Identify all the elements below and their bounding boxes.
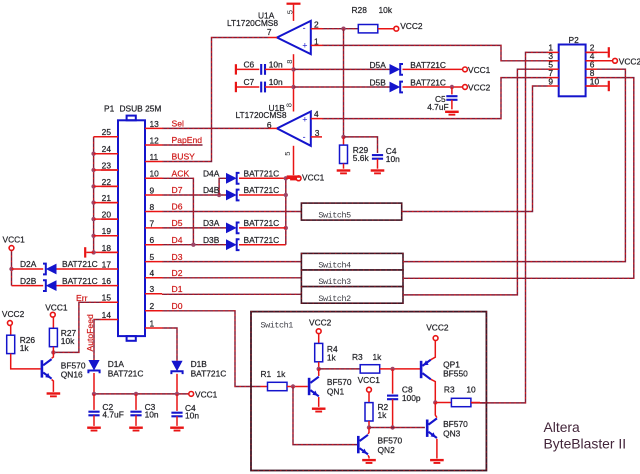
wire QN16 collector	[52, 352, 54, 358]
power VCC1 at R2	[358, 375, 381, 392]
svg-text:10k: 10k	[379, 5, 393, 15]
wire Switch2 out to P2.5	[403, 69, 548, 295]
wire P2.1 to Switch1 output	[471, 52, 548, 403]
svg-text:D1B: D1B	[191, 359, 208, 369]
svg-text:4.7uF: 4.7uF	[102, 410, 123, 420]
wire D1B cathode to rail	[176, 374, 178, 394]
wire P2 pin 3 stub	[548, 60, 559, 62]
junction left bus at pin 20	[91, 217, 95, 221]
svg-text:21: 21	[102, 193, 112, 203]
junction QN1 base node	[291, 384, 295, 388]
junction rail/C2	[92, 392, 96, 396]
wire R26 to QN16 base	[11, 354, 41, 369]
transistor Q QN2 BF570	[357, 435, 368, 455]
svg-text:VCC1: VCC1	[195, 389, 218, 399]
ground GND under QN1	[312, 408, 326, 413]
wire D3B cathode	[239, 244, 286, 246]
ground bar terminal C7 left	[235, 82, 237, 92]
transistor Q QP1 BF550	[420, 360, 431, 380]
svg-text:23: 23	[102, 160, 112, 170]
transistor Q QN16 BF570	[41, 359, 52, 379]
svg-text:Sel: Sel	[172, 119, 185, 129]
svg-text:1: 1	[150, 318, 155, 328]
sheet symbol Switch1 box	[251, 312, 486, 471]
wire U1B pin 5 to ground	[293, 146, 295, 175]
svg-text:D2: D2	[172, 268, 183, 278]
wire D5 (P1.7) to D3A	[162, 227, 226, 229]
power VCC1 at D5A	[463, 65, 491, 75]
resistor R28 body	[358, 25, 378, 33]
power VCC2 at R26	[2, 309, 25, 325]
P1 right side pin stubs	[145, 127, 162, 129]
svg-text:10n: 10n	[185, 411, 199, 421]
svg-text:BAT721C: BAT721C	[244, 185, 280, 195]
wire D5A to VCC1	[403, 68, 463, 70]
wire reference to C4	[344, 137, 378, 153]
junction cathode bus D4B	[284, 193, 288, 197]
wire P2 pin 5 stub	[548, 68, 559, 70]
svg-text:4.7uF: 4.7uF	[427, 102, 448, 112]
wire R29 to gnd	[343, 164, 345, 169]
wire QN1 emitter	[318, 397, 320, 407]
svg-text:BAT721C: BAT721C	[410, 60, 446, 70]
svg-text:D2A: D2A	[20, 259, 37, 269]
svg-text:1k: 1k	[327, 352, 337, 362]
svg-text:D4A: D4A	[203, 169, 220, 179]
wire D0 (P1.2) to R1	[162, 311, 261, 387]
svg-text:VCC2: VCC2	[619, 56, 640, 66]
wire D2A anode to P1.17	[57, 268, 102, 270]
diode D2B	[43, 280, 57, 291]
svg-text:7: 7	[267, 27, 272, 37]
svg-text:17: 17	[102, 259, 112, 269]
junction C8 top node	[390, 367, 394, 371]
sheet symbol Switch2	[301, 287, 403, 304]
wire cathode bus to VCC1	[286, 177, 296, 179]
wire QP1 collector	[431, 379, 436, 402]
capacitor C4 (10n at reference)	[372, 155, 383, 159]
svg-text:BAT721C: BAT721C	[244, 218, 280, 228]
wire P2 pin 4 stub	[586, 60, 597, 62]
junction cathode bus top	[284, 176, 288, 180]
svg-text:D0: D0	[172, 301, 183, 311]
wire D1 (P1.3) to Switch2	[162, 293, 301, 295]
svg-text:BAT721C: BAT721C	[191, 369, 227, 379]
wire R28 to VCC2	[378, 28, 394, 30]
capacitor C8	[392, 369, 394, 394]
svg-text:D5A: D5A	[370, 60, 387, 70]
svg-text:1k: 1k	[373, 352, 383, 362]
junction QN1 collector node	[317, 367, 321, 371]
capacitor C2	[93, 394, 95, 410]
svg-text:QN1: QN1	[327, 387, 345, 397]
wire P1 pin 21 to bus	[94, 202, 118, 204]
svg-text:Err: Err	[76, 293, 88, 303]
svg-text:R3: R3	[352, 352, 363, 362]
wire VCC1 to D2 cathodes	[11, 250, 13, 285]
svg-text:10n: 10n	[145, 410, 159, 420]
ground GND under C3	[129, 427, 143, 432]
svg-text:R3: R3	[444, 385, 455, 395]
wire QP1 emitter to VCC2	[431, 341, 436, 360]
svg-text:BAT721C: BAT721C	[62, 276, 98, 286]
svg-text:C6: C6	[244, 60, 255, 70]
wire QN2 collector to QN3 base	[369, 427, 425, 429]
svg-text:8: 8	[285, 60, 294, 64]
op-amp U1B LT1720CMS8	[277, 112, 311, 146]
wire D3A cathode	[239, 227, 286, 229]
wire U1A.2 to R28	[322, 28, 358, 30]
junction left bus at pin 19	[91, 234, 95, 238]
diode D4B	[226, 190, 240, 201]
connector P1 DSUB 25M body	[118, 116, 145, 341]
wire Switch5 out to P2.9	[402, 86, 548, 212]
wire R27 to collector node	[52, 347, 54, 353]
junction QN16 collector node	[51, 350, 55, 354]
svg-text:AutoFeed: AutoFeed	[85, 314, 95, 351]
svg-text:12: 12	[150, 135, 160, 145]
svg-text:11: 11	[150, 152, 159, 162]
resistor R29	[343, 137, 345, 145]
resistor R3 1k	[360, 365, 380, 373]
wire P2 pin 6 stub	[586, 68, 597, 70]
junction reference node	[341, 135, 345, 139]
svg-text:+: +	[302, 41, 307, 51]
capacitor C6 body	[261, 64, 265, 75]
ground GND under U1B	[287, 175, 301, 180]
wire D6 (P1.8) to Switch5	[162, 211, 301, 213]
svg-text:-: -	[303, 23, 306, 33]
svg-text:BAT721C: BAT721C	[244, 169, 280, 179]
wire collector node to R3 10	[435, 402, 451, 404]
svg-text:R1: R1	[261, 369, 272, 379]
wire D5B to VCC2	[403, 86, 463, 88]
wire D2B cathode wire	[12, 285, 44, 287]
wire P2 pin 1 stub	[548, 51, 559, 53]
wire D2 (P1.4) to Switch3	[162, 277, 301, 279]
svg-text:VCC2: VCC2	[2, 309, 25, 319]
wire D4A cathode	[239, 177, 286, 179]
wire collector node to R3	[319, 368, 361, 370]
ground GND under QN2	[362, 459, 376, 464]
svg-text:5.6k: 5.6k	[353, 153, 370, 163]
svg-text:20: 20	[102, 210, 112, 220]
svg-text:10: 10	[150, 169, 160, 179]
power VCC1 at rail	[189, 389, 218, 399]
svg-text:D2B: D2B	[20, 276, 37, 286]
capacitor C3	[135, 394, 137, 410]
wire R1 left stub	[261, 386, 268, 388]
svg-text:Switch3: Switch3	[318, 277, 351, 287]
wire D2B anode to P1.16	[57, 285, 102, 287]
svg-text:P2: P2	[569, 35, 580, 45]
diode D5B	[390, 82, 404, 93]
svg-text:3: 3	[150, 284, 155, 294]
ground GND under QN3	[430, 459, 444, 464]
wire reference net vertical x=343.5	[343, 29, 345, 137]
wire P2 pin 7 stub	[548, 77, 559, 79]
svg-text:24: 24	[102, 144, 112, 154]
svg-text:D6: D6	[172, 202, 183, 212]
wire D7 to D4A anode	[219, 178, 226, 195]
resistor R4	[318, 334, 320, 344]
wire U1A pin 5 to ground bar	[293, 5, 295, 21]
wire C6 node to D5A	[294, 68, 390, 70]
svg-text:16: 16	[102, 276, 112, 286]
junction C5 tap	[450, 85, 454, 89]
wire U1A pin 1 stub	[311, 44, 322, 46]
wire P1 pin 23 to bus	[94, 169, 118, 171]
svg-text:Switch2: Switch2	[318, 294, 351, 304]
svg-text:7: 7	[150, 218, 155, 228]
svg-text:D1A: D1A	[108, 359, 125, 369]
ground GND under R29	[337, 169, 351, 174]
svg-text:Switch5: Switch5	[318, 211, 351, 221]
svg-text:+: +	[302, 114, 307, 124]
svg-text:D3: D3	[172, 252, 183, 262]
wire P2 pin 10 to gnd bar	[586, 85, 608, 87]
svg-text:10k: 10k	[61, 336, 75, 346]
wire P1 pin 25 to bus	[94, 136, 118, 138]
wire AutoFeed (P1.14) to D1A	[94, 320, 101, 361]
wire R3 out stub	[471, 402, 480, 404]
wire P2 pin 2 to gnd bar	[586, 51, 608, 53]
power VCC1 top left	[3, 235, 26, 251]
ground GND under C4	[371, 169, 385, 174]
transistor Q QN1 BF570	[308, 377, 319, 397]
junction rail/C3	[134, 392, 138, 396]
power VCC1 clamp	[296, 172, 324, 182]
ground bar GND bar at P1.18	[84, 247, 86, 257]
svg-text:9: 9	[548, 76, 553, 86]
power VCC1 at R27	[45, 302, 68, 317]
svg-text:100p: 100p	[402, 393, 421, 403]
svg-text:15: 15	[102, 293, 112, 303]
op-amp U1A LT1720CMS8	[277, 21, 311, 54]
resistor R26	[9, 325, 12, 335]
wire C7 node to D5B	[294, 86, 390, 88]
svg-text:BF550: BF550	[443, 369, 468, 379]
svg-text:D5B: D5B	[370, 77, 387, 87]
wire U1A pin 2 stub	[311, 28, 322, 30]
power VCC2 at QP1	[426, 323, 449, 341]
wire Strobe (P1.1) to D1B	[162, 328, 177, 361]
junction left bus at pin 24	[91, 152, 95, 156]
wire Sel (P1.13 to U1B.6)	[162, 127, 269, 129]
wire P1 pin 18 to bus	[94, 251, 118, 253]
wire QN3 emitter	[436, 439, 438, 459]
svg-text:BAT721C: BAT721C	[244, 235, 280, 245]
svg-text:VCC2: VCC2	[309, 318, 332, 328]
wire QN2 emitter	[368, 455, 369, 458]
wire U1A.1 to P2 pin 3	[322, 45, 548, 60]
wire U1B pin 3 stub	[311, 136, 322, 138]
sheet symbol Switch4	[301, 253, 403, 270]
wire D4 (P1.6) to D3B	[162, 244, 226, 246]
wire D3 (P1.5) to Switch4	[162, 261, 301, 263]
svg-text:1k: 1k	[378, 410, 388, 420]
diode D4A	[226, 173, 240, 184]
svg-text:BAT721C: BAT721C	[410, 77, 446, 87]
svg-text:2: 2	[150, 301, 155, 311]
resistor R3 10 (output)	[451, 398, 471, 406]
wire PapEnd stub	[162, 144, 203, 146]
svg-text:10: 10	[590, 76, 600, 86]
wire D4B cathode	[239, 194, 286, 196]
svg-text:DSUB 25M: DSUB 25M	[120, 103, 162, 113]
svg-text:9: 9	[150, 185, 155, 195]
svg-text:D3A: D3A	[203, 218, 220, 228]
power VCC2 at D5B	[463, 83, 491, 93]
svg-text:10: 10	[466, 385, 476, 395]
ground bar GND bar at P2.10	[608, 81, 610, 91]
svg-text:6: 6	[150, 235, 155, 245]
wire QN16 emitter	[52, 380, 54, 392]
junction C8 bottom node	[390, 425, 394, 429]
wire P1 pin 20 to bus	[94, 218, 118, 220]
wire P1 pin 22 to bus	[94, 185, 118, 187]
svg-text:VCC1: VCC1	[468, 65, 491, 75]
svg-text:-: -	[303, 132, 306, 142]
svg-text:R28: R28	[352, 5, 368, 15]
junction V+ rail / C6	[291, 67, 295, 71]
junction QN3 collector node	[433, 400, 437, 404]
diode D3A	[226, 223, 240, 234]
svg-text:QN16: QN16	[61, 369, 83, 379]
wire U1A pin 7 stub	[269, 37, 278, 39]
wire P1 pin 19 to bus	[94, 235, 118, 237]
ground GND under QN16	[47, 392, 61, 397]
svg-text:5: 5	[283, 152, 292, 156]
wire U1B pin 4 stub	[311, 118, 322, 120]
svg-text:VCC1: VCC1	[302, 172, 325, 182]
capacitor C7 body	[261, 82, 265, 93]
sheet symbol Switch3	[301, 270, 403, 287]
svg-text:1k: 1k	[20, 343, 30, 353]
capacitor C5	[451, 87, 453, 94]
svg-text:D5: D5	[172, 218, 183, 228]
power VCC2 at R4	[309, 318, 332, 334]
svg-text:ByteBlaster II: ByteBlaster II	[544, 436, 627, 452]
power VCC2 at P2.4	[613, 56, 640, 66]
svg-text:ACK: ACK	[172, 169, 190, 179]
svg-text:1k: 1k	[277, 369, 287, 379]
wire U1B pin 6 stub	[269, 127, 278, 129]
wire Switch3 out to P2.8	[403, 78, 634, 279]
svg-text:QN3: QN3	[443, 428, 461, 438]
wire P2 pin 10 stub	[586, 85, 597, 87]
wire D1A cathode to rail	[93, 373, 95, 394]
wire P2 pin 8 stub	[586, 77, 597, 79]
connector P2 body	[559, 45, 586, 97]
svg-text:4: 4	[314, 109, 319, 119]
svg-text:LT1720CMS8: LT1720CMS8	[236, 110, 287, 120]
wire QN3 collector leg	[435, 403, 437, 418]
wire P2 pin 4 to VCC2	[586, 60, 613, 62]
junction ACK joins D4	[191, 243, 195, 247]
svg-text:BUSY: BUSY	[172, 152, 196, 162]
ground bar above U1A	[287, 3, 301, 5]
junction V+ rail / C7	[291, 85, 295, 89]
diode D3B	[226, 239, 240, 250]
junction VCC1/D2A node	[9, 267, 13, 271]
svg-text:13: 13	[150, 119, 160, 129]
wire D2A cathode wire	[12, 268, 44, 270]
svg-text:VCC2: VCC2	[468, 83, 491, 93]
wire P1 left ground bus x=93.6	[93, 137, 95, 253]
wire Err (P1.15) to QN16 collector	[53, 302, 101, 352]
svg-text:8: 8	[284, 103, 293, 107]
capacitor C5 body	[446, 96, 457, 100]
wire U1A pin 8 / U1B pin 8 V+ rail	[293, 54, 295, 111]
svg-text:22: 22	[102, 177, 112, 187]
junction D7 tap	[217, 193, 221, 197]
ground GND under C4	[170, 427, 184, 432]
svg-text:8: 8	[150, 202, 155, 212]
svg-text:10n: 10n	[269, 60, 283, 70]
diode D1A	[88, 360, 99, 373]
wire R2 to QN2 collector	[368, 421, 370, 428]
wire Switch4 out to P2.6	[403, 69, 625, 261]
svg-text:VCC1: VCC1	[3, 235, 26, 245]
svg-text:D7: D7	[172, 185, 183, 195]
svg-text:VCC2: VCC2	[426, 323, 449, 333]
wire ACK to D4 net	[162, 178, 193, 244]
transistor Q QN3 BF570	[426, 418, 437, 438]
svg-text:19: 19	[102, 226, 112, 236]
ground bar GND bar at P2.2	[608, 47, 610, 57]
svg-text:14: 14	[102, 310, 112, 320]
svg-text:PapEnd: PapEnd	[172, 135, 203, 145]
svg-text:4: 4	[150, 268, 155, 278]
junction QN2 collector node	[367, 425, 371, 429]
wire QN1 collector	[318, 369, 320, 376]
P1 left side pin stubs	[101, 136, 118, 138]
wire pin18 to ground bar	[86, 251, 93, 253]
wire D7 (P1.9) to D4B	[162, 194, 226, 196]
ground bar terminal C6 left	[235, 64, 237, 74]
svg-text:D3B: D3B	[203, 235, 220, 245]
wire R1 to QN1 base	[287, 386, 308, 388]
svg-text:Switch1: Switch1	[261, 320, 294, 330]
svg-text:BAT721C: BAT721C	[108, 369, 144, 379]
svg-text:25: 25	[102, 127, 112, 137]
svg-text:VCC2: VCC2	[400, 21, 423, 31]
resistor R2	[368, 392, 370, 403]
wire P2 pin 2 stub	[586, 51, 597, 53]
ground GND under C2	[87, 427, 101, 432]
svg-text:QN2: QN2	[378, 445, 396, 455]
svg-text:VCC1: VCC1	[45, 302, 68, 312]
wire BUSY (P1.11 to U1A.7)	[162, 38, 269, 162]
svg-text:Switch4: Switch4	[318, 261, 351, 271]
svg-text:10n: 10n	[386, 154, 400, 164]
wire QN1 base to QN2 base	[293, 387, 357, 445]
resistor R1	[268, 382, 288, 390]
wire P1 pin 24 to bus	[94, 153, 118, 155]
capacitor C4 (10n at rail)	[176, 394, 178, 411]
wire QN2 collector leg	[368, 428, 369, 435]
svg-text:5: 5	[150, 252, 155, 262]
svg-text:Altera: Altera	[544, 419, 581, 435]
junction left bus at pin 22	[91, 184, 95, 188]
svg-text:18: 18	[102, 243, 112, 253]
power VCC2 at R28	[394, 21, 423, 31]
junction left bus at pin 21	[91, 200, 95, 204]
junction cathode bus D3A	[284, 226, 288, 230]
svg-text:BAT721C: BAT721C	[62, 259, 98, 269]
wire U1B.4 to P2 pin 7	[322, 78, 548, 119]
